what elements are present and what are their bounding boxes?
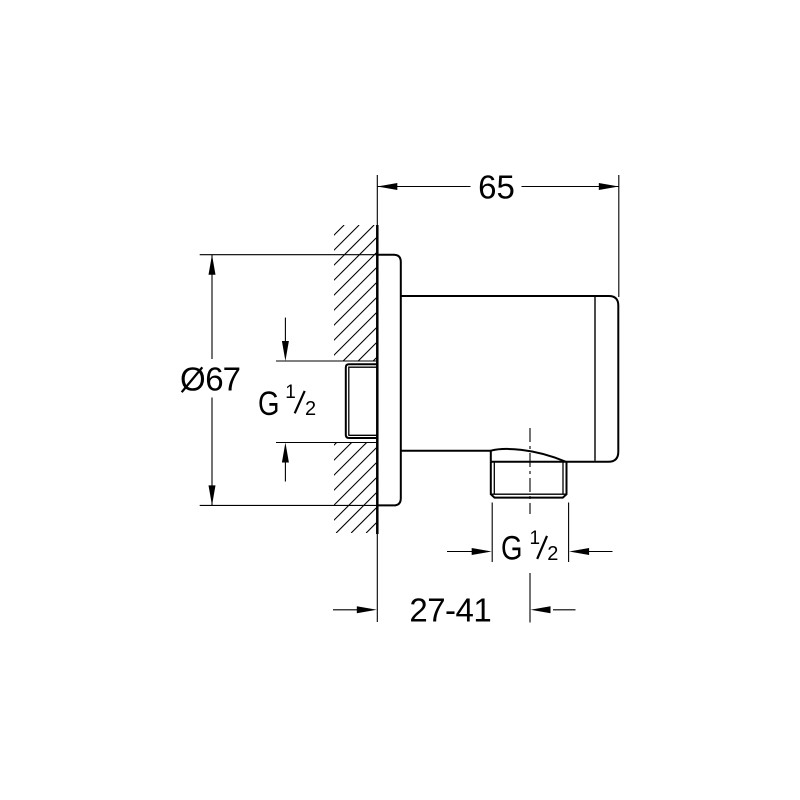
- end cap junction line: [594, 297, 596, 461]
- svg-text:2: 2: [547, 543, 558, 565]
- dimension 27-41: left arrow: [333, 609, 358, 611]
- wall G1/2 dimension: upper arrow: [284, 318, 286, 343]
- bottom G1/2 dimension: left arrow: [447, 551, 473, 553]
- bottom G1/2 dimension: right arrow: [588, 551, 613, 553]
- wall hatching: [36, 225, 674, 533]
- body bottom-left edge and spout left edge: [401, 451, 491, 462]
- center line extension to 27-41 dimension: [529, 573, 531, 623]
- svg-text:2: 2: [305, 398, 316, 420]
- svg-text:G: G: [258, 385, 280, 423]
- spout transition curve: [491, 449, 567, 462]
- bottom G1/2 dimension: right extension line: [568, 503, 570, 563]
- socket chamfer detail lines: [349, 367, 378, 436]
- svg-text:27-41: 27-41: [409, 592, 491, 629]
- svg-text:1: 1: [285, 382, 296, 403]
- wall face line: [376, 225, 379, 534]
- body outline (top, right cap, bottom line): [401, 296, 619, 462]
- dimension 65: left extension line: [376, 175, 378, 225]
- dimension 27-41: left extension line (wall face extended): [376, 534, 378, 622]
- dimension 65: arrowheads: [377, 183, 397, 190]
- wall hole upper edge (extension line G1/2): [276, 360, 377, 362]
- wall G1/2 dimension: lower arrow: [284, 461, 286, 482]
- wall socket union (female G1/2): [346, 364, 378, 438]
- wall hole lower edge (extension line G1/2): [276, 442, 377, 444]
- dimension 65: dimension line: [377, 186, 619, 188]
- dimension 27-41: right arrow: [553, 609, 576, 611]
- outlet center line (dash-dot): [529, 428, 531, 514]
- dimension Ø67: top extension line: [200, 254, 378, 256]
- dimension Ø67: arrowheads: [209, 255, 216, 275]
- wall G1/2 label: [258, 382, 316, 423]
- svg-text:67: 67: [205, 361, 240, 398]
- flange (wall escutcheon): [377, 255, 401, 506]
- bottom G1/2 dimension: left extension line: [491, 503, 493, 563]
- dimension Ø67: bottom extension line: [200, 504, 378, 506]
- nut chamfer detail lines: [491, 462, 567, 494]
- svg-text:1: 1: [530, 528, 541, 549]
- dimension Ø67: dimension line: [211, 255, 213, 506]
- svg-text:65: 65: [478, 169, 515, 206]
- bottom G1/2 label: [501, 528, 558, 568]
- outlet nut (male G1/2 thread): [491, 462, 567, 498]
- svg-text:G: G: [501, 530, 523, 568]
- dimension 65: right extension line: [618, 175, 620, 297]
